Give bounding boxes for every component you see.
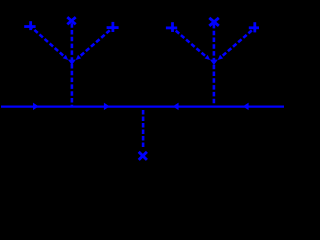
arrow on fermion line segment 3 (leftward) xyxy=(173,103,179,111)
right group: right plus insertion xyxy=(249,22,259,32)
left group: left diagonal dashed line from plus to vertex xyxy=(31,27,64,56)
right group: arrowhead on right diagonal (pointing to vertex) xyxy=(218,55,224,60)
right group: downward arrow at vertex on vertical propagator xyxy=(210,60,218,65)
left group: arrowhead on right diagonal (pointing to vertex) xyxy=(76,55,82,60)
left group: right diagonal dashed line from plus to vertex xyxy=(81,28,113,56)
left group: arrowhead on left diagonal (pointing to vertex) xyxy=(63,55,68,60)
right group: left diagonal dashed line from plus to vertex xyxy=(173,28,206,56)
left group: right plus insertion xyxy=(107,22,119,32)
left group: left plus insertion xyxy=(24,21,35,30)
left group: vertical dashed propagator from top cross down to fermion line xyxy=(71,23,74,106)
left group: downward arrow at vertex on vertical propagator xyxy=(68,60,76,65)
right group: vertical dashed propagator from top cross down to fermion line xyxy=(213,24,216,106)
right group: left plus insertion xyxy=(166,22,177,32)
right group: right diagonal dashed line from plus to vertex xyxy=(223,28,255,56)
arrow on fermion line segment 2 (rightward) xyxy=(104,103,110,111)
right group: top cross (x) insertion xyxy=(209,18,219,26)
center: vertical dashed line below fermion line down to bottom cross xyxy=(142,110,145,147)
arrow on fermion line segment 4 (leftward) xyxy=(243,103,249,111)
arrow on fermion line segment 1 (rightward) xyxy=(33,103,39,111)
left group: top cross (x) insertion xyxy=(67,17,75,24)
center: bottom cross (x) insertion xyxy=(139,152,147,160)
fermion (electron) line xyxy=(1,105,284,107)
right group: arrowhead on left diagonal (pointing to vertex) xyxy=(205,55,211,60)
